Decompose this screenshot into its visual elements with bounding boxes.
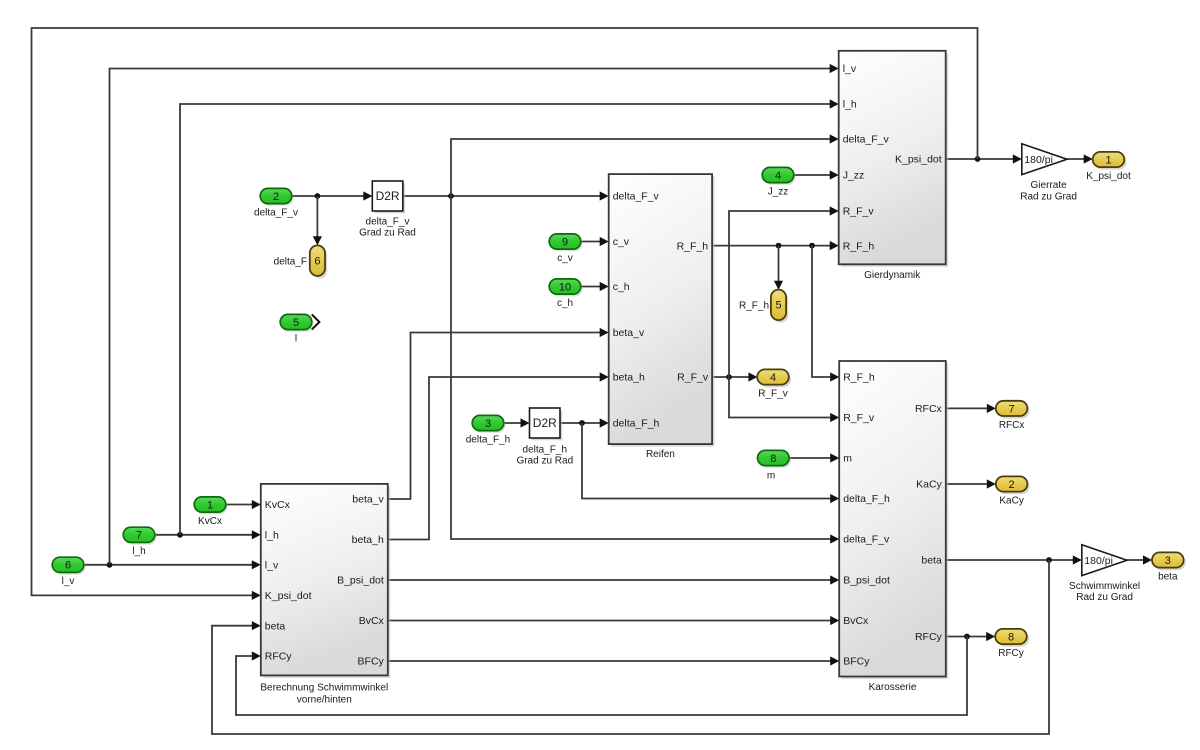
svg-text:10: 10: [559, 281, 571, 293]
svg-text:BvCx: BvCx: [359, 615, 385, 627]
svg-text:R_F_v: R_F_v: [758, 389, 787, 400]
svg-text:KvCx: KvCx: [198, 516, 222, 527]
svg-text:D2R: D2R: [533, 416, 557, 430]
svg-text:KvCx: KvCx: [265, 499, 291, 511]
svg-text:delta_F_h: delta_F_h: [466, 434, 510, 445]
svg-text:K_psi_dot: K_psi_dot: [265, 590, 312, 602]
svg-text:180/pi: 180/pi: [1024, 154, 1053, 166]
svg-text:Berechnung Schwimmwinkel: Berechnung Schwimmwinkel: [260, 683, 388, 694]
svg-text:RFCx: RFCx: [915, 403, 943, 415]
svg-text:l: l: [295, 333, 297, 344]
svg-text:Rad zu Grad: Rad zu Grad: [1076, 592, 1133, 603]
svg-text:Gierrate: Gierrate: [1031, 180, 1068, 191]
svg-text:R_F_v: R_F_v: [677, 372, 709, 384]
svg-text:3: 3: [1165, 555, 1171, 567]
svg-text:RFCy: RFCy: [998, 648, 1024, 659]
svg-text:4: 4: [770, 372, 776, 384]
svg-text:BvCx: BvCx: [843, 615, 869, 627]
svg-text:delta_F_h: delta_F_h: [613, 418, 660, 430]
svg-text:delta_F_h: delta_F_h: [843, 493, 890, 505]
svg-text:delta_F_h: delta_F_h: [523, 444, 567, 455]
svg-text:R_F_h: R_F_h: [843, 372, 875, 384]
svg-text:beta_h: beta_h: [352, 534, 384, 546]
svg-text:l_h: l_h: [132, 546, 145, 557]
svg-text:delta_F_v: delta_F_v: [843, 134, 890, 146]
svg-text:R_F_v: R_F_v: [843, 412, 875, 424]
svg-text:c_v: c_v: [613, 236, 630, 248]
svg-text:J_zz: J_zz: [768, 186, 789, 197]
svg-text:c_h: c_h: [613, 281, 630, 293]
svg-text:delta_F_v: delta_F_v: [254, 207, 298, 218]
svg-text:3: 3: [485, 418, 491, 430]
svg-text:RFCx: RFCx: [999, 420, 1025, 431]
svg-text:m: m: [843, 453, 852, 465]
svg-text:1: 1: [207, 499, 213, 511]
svg-text:Rad zu Grad: Rad zu Grad: [1020, 191, 1077, 202]
svg-text:8: 8: [1008, 631, 1014, 643]
svg-text:2: 2: [273, 191, 279, 203]
svg-text:R_F_v: R_F_v: [843, 206, 875, 218]
svg-text:Gierdynamik: Gierdynamik: [864, 270, 921, 281]
svg-text:Grad zu Rad: Grad zu Rad: [516, 455, 573, 466]
svg-text:delta_F_v: delta_F_v: [843, 534, 890, 546]
svg-text:J_zz: J_zz: [843, 170, 865, 182]
svg-text:Karosserie: Karosserie: [869, 682, 917, 693]
svg-text:R_F_h: R_F_h: [843, 240, 875, 252]
svg-text:1: 1: [1105, 154, 1111, 166]
svg-text:l_v: l_v: [265, 560, 279, 572]
svg-text:delta_F_v: delta_F_v: [366, 216, 410, 227]
svg-text:K_psi_dot: K_psi_dot: [1086, 171, 1131, 182]
svg-text:RFCy: RFCy: [265, 651, 293, 663]
svg-text:6: 6: [314, 256, 320, 268]
svg-text:c_h: c_h: [557, 298, 573, 309]
svg-text:beta: beta: [265, 620, 286, 632]
svg-text:BFCy: BFCy: [843, 656, 870, 668]
svg-text:Grad zu Rad: Grad zu Rad: [359, 227, 416, 238]
svg-text:7: 7: [136, 530, 142, 542]
svg-text:beta: beta: [1158, 572, 1178, 583]
svg-text:l_v: l_v: [843, 63, 857, 75]
svg-text:180/pi: 180/pi: [1084, 555, 1113, 567]
svg-text:Reifen: Reifen: [646, 449, 675, 460]
svg-text:5: 5: [293, 317, 299, 329]
svg-text:c_v: c_v: [557, 253, 573, 264]
svg-text:Schwimmwinkel: Schwimmwinkel: [1069, 581, 1140, 592]
svg-text:R_F_h: R_F_h: [739, 301, 769, 312]
svg-text:delta_F: delta_F: [274, 256, 307, 267]
svg-text:4: 4: [775, 170, 781, 182]
svg-text:D2R: D2R: [376, 189, 400, 203]
svg-text:delta_F_v: delta_F_v: [613, 191, 660, 203]
svg-text:beta_h: beta_h: [613, 372, 645, 384]
svg-text:2: 2: [1009, 479, 1015, 491]
svg-text:vorne/hinten: vorne/hinten: [297, 695, 352, 706]
svg-text:B_psi_dot: B_psi_dot: [843, 575, 890, 587]
svg-text:KaCy: KaCy: [916, 479, 942, 491]
svg-text:B_psi_dot: B_psi_dot: [337, 575, 384, 587]
svg-text:BFCy: BFCy: [358, 656, 385, 668]
svg-text:l_v: l_v: [62, 576, 75, 587]
svg-text:beta_v: beta_v: [352, 494, 384, 506]
svg-text:beta_v: beta_v: [613, 327, 645, 339]
svg-text:RFCy: RFCy: [915, 631, 943, 643]
svg-text:l_h: l_h: [843, 99, 857, 111]
svg-text:beta: beta: [921, 555, 942, 567]
svg-text:9: 9: [562, 236, 568, 248]
svg-text:R_F_h: R_F_h: [677, 240, 709, 252]
svg-text:6: 6: [65, 560, 71, 572]
svg-text:5: 5: [775, 300, 781, 312]
svg-text:KaCy: KaCy: [999, 496, 1023, 507]
svg-text:l_h: l_h: [265, 530, 279, 542]
svg-text:K_psi_dot: K_psi_dot: [895, 154, 942, 166]
svg-text:8: 8: [770, 453, 776, 465]
svg-text:7: 7: [1009, 403, 1015, 415]
svg-text:m: m: [767, 471, 775, 482]
